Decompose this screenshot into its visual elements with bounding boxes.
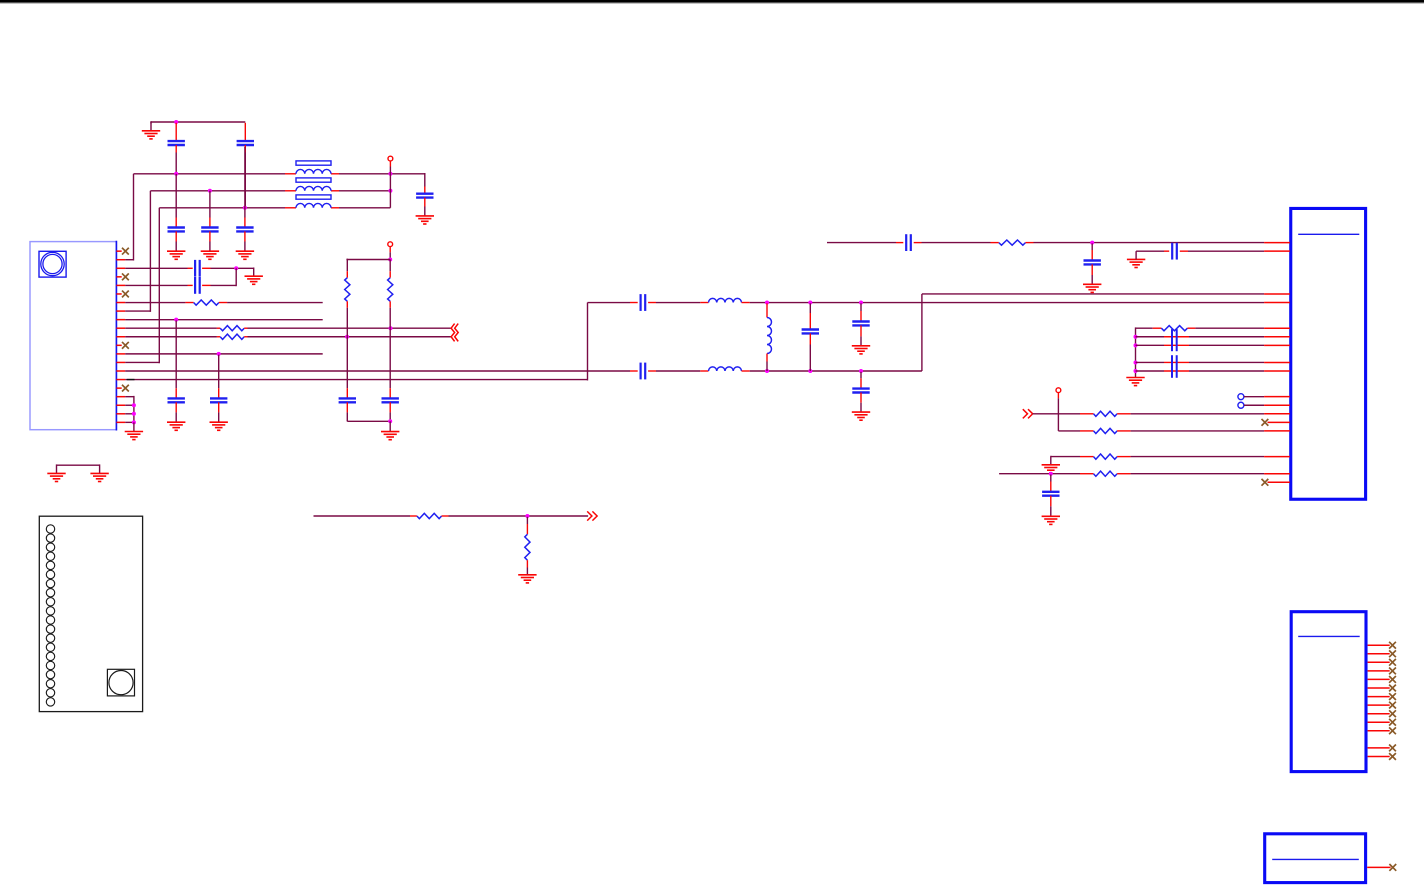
wire R7 to J1 xyxy=(1195,327,1264,329)
inductor T1 winding 1 xyxy=(296,169,331,173)
U1 pin 17 no-connect xyxy=(116,387,121,389)
wire pin7 xyxy=(125,302,185,304)
wire net M xyxy=(314,515,411,517)
offsheet chevron pins 10-11 xyxy=(451,324,455,342)
wire net K xyxy=(1050,455,1052,458)
ground C4v2 xyxy=(201,250,219,252)
J2 pin 8 no-connect xyxy=(1368,704,1390,706)
connector J3 label line xyxy=(1272,858,1359,860)
wire L1 right xyxy=(750,302,1264,304)
wire net B riser xyxy=(125,310,150,312)
J1 pin 17 no-connect xyxy=(1268,481,1290,483)
junction R3 net xyxy=(345,335,349,339)
ground net K xyxy=(1042,464,1060,466)
wire L2 right xyxy=(750,370,922,372)
J1 pin 7 xyxy=(1264,344,1290,346)
J1 pin 6 xyxy=(1264,336,1290,338)
junction pins bracket c xyxy=(132,420,136,424)
terminal P5 xyxy=(1056,388,1061,393)
inductor L3 xyxy=(766,303,768,317)
resistor R4 xyxy=(345,278,350,302)
J2 pin 12 no-connect xyxy=(1368,747,1390,749)
junction C6 C7 xyxy=(234,266,238,270)
J1 pin 1 xyxy=(1264,242,1290,244)
connector J3 body xyxy=(1265,834,1366,883)
J1 pin 13 no-connect xyxy=(1268,421,1290,423)
junction C15 top xyxy=(859,301,863,305)
ground C8 xyxy=(167,421,185,423)
ground C18 xyxy=(1083,283,1101,285)
capacitor C14 xyxy=(809,303,811,313)
inductor T1 winding 2 xyxy=(296,186,331,190)
terminal P2 xyxy=(388,242,393,247)
wire P1 stem xyxy=(389,161,391,167)
wire net D step up xyxy=(921,294,923,371)
J2 pin 5 no-connect xyxy=(1368,678,1390,680)
capacitor C13 xyxy=(630,370,638,372)
wire pin15 net D xyxy=(125,370,630,372)
resistor R10 xyxy=(1080,456,1094,458)
wire C19 to J1 xyxy=(1188,250,1264,252)
wire R12 to chevron xyxy=(449,515,589,517)
junction pins bracket a xyxy=(132,403,136,407)
junction pin9 cap xyxy=(174,318,178,322)
resistor R11 xyxy=(1080,473,1094,475)
resistor R5 top lead xyxy=(389,260,391,272)
wire P4 to J1 xyxy=(1244,404,1264,406)
junction net H4 xyxy=(1134,360,1138,364)
wire pin11 xyxy=(125,336,217,338)
resistor R5 bottom lead xyxy=(389,301,391,307)
wire net A right xyxy=(339,173,425,175)
wire net G xyxy=(1135,251,1137,259)
wire net E top xyxy=(588,302,631,304)
offsheet chevron net I xyxy=(1023,409,1028,418)
resistor R13 xyxy=(525,534,530,560)
wire net A xyxy=(134,173,286,175)
U1 pin 13 xyxy=(116,353,125,355)
capacitor C4v1 xyxy=(168,226,185,228)
wire net K gnd stem xyxy=(1050,457,1052,465)
U1 pin 7 xyxy=(116,302,125,304)
terminal P3 xyxy=(1238,394,1244,400)
ground C3 xyxy=(416,215,434,217)
ground net H xyxy=(1126,377,1144,379)
resistor R6 xyxy=(991,242,999,244)
capacitor C21 xyxy=(1171,355,1173,378)
J2 pin 9 no-connect xyxy=(1368,713,1390,715)
wire R6 to J1 xyxy=(1034,242,1265,244)
wire net H2 xyxy=(1136,336,1165,338)
J3 pin 1 no-connect xyxy=(1367,866,1390,868)
terminal P1 xyxy=(388,156,393,161)
wire net C riser xyxy=(125,361,159,363)
resistor R1 xyxy=(185,302,193,304)
U1 pin 8 xyxy=(116,310,125,312)
wire pin16 net E xyxy=(125,379,587,381)
wire C12 to L1 xyxy=(656,302,700,304)
J1 pin 14 xyxy=(1264,430,1290,432)
wire net J xyxy=(1058,430,1080,432)
ground C6 C7 xyxy=(245,275,263,277)
capacitor C4v1 stem xyxy=(175,174,177,218)
wire P5 stem xyxy=(1057,393,1059,399)
wire pin3 xyxy=(125,267,187,269)
wire pin5 xyxy=(125,284,187,286)
J2 pin 2 no-connect xyxy=(1368,653,1390,655)
J1 pin 8 xyxy=(1264,361,1290,363)
wire R3 right xyxy=(248,336,452,338)
wire junction to ground xyxy=(253,267,255,276)
junction R2 net xyxy=(389,326,393,330)
junction caps join xyxy=(388,419,392,423)
capacitor C22 xyxy=(1050,475,1052,482)
capacitor C18 xyxy=(1091,243,1093,250)
capacitor C4v2 xyxy=(201,226,218,228)
capacitor C20 xyxy=(1171,329,1173,351)
wire bracket to ground xyxy=(133,422,135,431)
wire C2 down to net C xyxy=(244,153,246,208)
title bar xyxy=(0,0,1424,3)
transformer T1 bar 1 xyxy=(296,161,331,165)
wire R2 right xyxy=(248,327,452,329)
capacitor C8 stem xyxy=(175,320,177,388)
inductor T1 winding 1 leads xyxy=(285,173,296,175)
resistor R12 xyxy=(410,515,417,517)
U1 pin 10 xyxy=(116,327,125,329)
junction P2 xyxy=(388,258,392,262)
wire C7 up xyxy=(211,284,237,286)
U1 pin 1 no-connect xyxy=(116,250,121,252)
J4 RF symbol xyxy=(107,669,134,696)
J1 pin 9 xyxy=(1264,370,1290,372)
wire R8 to J1 xyxy=(1131,413,1265,415)
capacitor C19 xyxy=(1164,250,1169,252)
junction net H2 xyxy=(1134,335,1138,339)
wire net A riser xyxy=(125,259,133,261)
capacitor C12 xyxy=(630,302,638,304)
wire C3 to ground xyxy=(424,207,426,216)
wire P2 stem xyxy=(389,247,391,253)
wire net H4 xyxy=(1136,361,1165,363)
wire net T top xyxy=(151,121,245,123)
terminal P4 xyxy=(1238,402,1244,408)
J1 pin 4 xyxy=(1264,302,1290,304)
resistor R7 xyxy=(1153,327,1162,329)
J2 pin 3 no-connect xyxy=(1368,661,1390,663)
J2 pin 10 no-connect xyxy=(1368,721,1390,723)
wire pin9 xyxy=(125,319,323,321)
U1 pin 6 no-connect xyxy=(116,293,121,295)
junction net H3 xyxy=(1134,343,1138,347)
capacitor C4v3 stem xyxy=(244,147,246,218)
offsheet chevron net M xyxy=(587,511,592,520)
capacitor C1 xyxy=(175,123,177,141)
U1 pin 3 xyxy=(116,267,125,269)
U1 pin 18 xyxy=(116,396,125,398)
capacitor C4v3 xyxy=(236,226,253,228)
resistor R8 xyxy=(1080,413,1094,415)
J1 pin 12 xyxy=(1264,413,1290,415)
junction L3 top xyxy=(765,301,769,305)
wire net H5 xyxy=(1136,370,1165,372)
J1 pin 2 xyxy=(1264,250,1290,252)
J1 pin 5 xyxy=(1264,327,1290,329)
ground bracket right xyxy=(90,472,108,474)
junction C16 top xyxy=(859,369,863,373)
resistor R13 top lead xyxy=(526,517,528,524)
J2 pin 13 no-connect xyxy=(1368,756,1390,758)
capacitor C17 xyxy=(896,242,903,244)
wire R5 to cap xyxy=(389,328,391,388)
capacitor C15 xyxy=(860,303,862,311)
wire join to ground xyxy=(389,421,391,431)
J1 pin 11 xyxy=(1264,404,1290,406)
inductor L1 xyxy=(700,302,708,304)
resistor R4 top lead xyxy=(346,259,348,272)
junction net B C4 xyxy=(208,189,212,193)
junction C14 bottom xyxy=(808,369,812,373)
transformer T1 bar 2 xyxy=(296,178,331,182)
wire C1 to net A xyxy=(175,153,177,174)
U1 pin 19 xyxy=(116,404,125,406)
junction C18 xyxy=(1090,241,1094,245)
J1 pin 15 xyxy=(1264,456,1290,458)
junction net M xyxy=(525,514,529,518)
J1 pin 10 xyxy=(1264,396,1290,398)
capacitor C8 xyxy=(168,397,185,399)
junction L3 bottom xyxy=(765,369,769,373)
junction net B term xyxy=(388,189,392,193)
wire net B right xyxy=(339,190,390,192)
wire R1 right xyxy=(227,302,323,304)
ground C9 xyxy=(210,421,228,423)
inductor T1 winding 2 leads xyxy=(285,190,296,192)
U1 pin 15 xyxy=(116,370,125,372)
J1 pin 16 xyxy=(1264,473,1290,475)
ground net G xyxy=(1127,258,1145,260)
wire R4 to cap xyxy=(346,337,348,388)
wire C17 to R6 xyxy=(922,242,991,244)
wire C6 to junction xyxy=(211,267,254,269)
junction net A term xyxy=(388,172,392,176)
ground C15 xyxy=(852,345,870,347)
U1 pin 21 xyxy=(116,421,125,423)
J2 pin 1 no-connect xyxy=(1368,644,1390,646)
ground C4v1 xyxy=(167,250,185,252)
resistor R5 xyxy=(388,278,393,302)
J2 pin 11 no-connect xyxy=(1368,730,1390,732)
U1 pin 2 xyxy=(116,259,125,261)
wire R11 to J1 xyxy=(1131,473,1265,475)
U1 pin 5 xyxy=(116,284,125,286)
junction pin13 cap xyxy=(217,352,221,356)
IC U1 body xyxy=(30,242,116,430)
wire R10 to J1 xyxy=(1131,456,1265,458)
U1 pin 14 xyxy=(116,361,125,363)
wire net I xyxy=(1033,413,1080,415)
U1 pin 9 xyxy=(116,319,125,321)
ground net T xyxy=(150,122,152,131)
J2 pin 6 no-connect xyxy=(1368,687,1390,689)
wire C13 to L2 xyxy=(656,370,700,372)
ground divider xyxy=(381,431,399,433)
ground C4v3 xyxy=(236,250,254,252)
junction net H5 xyxy=(1134,369,1138,373)
junction net T C1 xyxy=(174,120,178,124)
wire ground bracket xyxy=(57,464,100,466)
ground R13 xyxy=(518,574,536,576)
capacitor C9 stem xyxy=(218,355,220,389)
wire net A corner down xyxy=(424,173,426,187)
wire net D to J1 xyxy=(922,293,1264,295)
net E black mark xyxy=(127,379,135,381)
resistor R13 bottom lead xyxy=(526,560,528,567)
wire R9 to J1 xyxy=(1131,430,1265,432)
wire divider jumper xyxy=(346,259,390,261)
capacitor C7 xyxy=(188,284,193,286)
connector J1 body xyxy=(1291,208,1366,499)
connector J4 body xyxy=(39,516,142,711)
inductor T1 winding 3 xyxy=(296,203,331,207)
ground C16 xyxy=(852,411,870,413)
U1 pin 20 xyxy=(116,413,125,415)
J2 pin 4 no-connect xyxy=(1368,670,1390,672)
wire net C right xyxy=(339,207,390,209)
capacitor C16 xyxy=(860,372,862,379)
J2 pin 7 no-connect xyxy=(1368,696,1390,698)
wire net H3 xyxy=(1136,344,1165,346)
connector J1 label line xyxy=(1298,233,1359,235)
J4 pin circles xyxy=(46,525,54,533)
connector J2 label line xyxy=(1298,635,1360,637)
wire pin13 xyxy=(125,353,323,355)
resistor R2 xyxy=(217,327,220,329)
U1 pin 11 xyxy=(116,336,125,338)
resistor R9 xyxy=(1080,430,1094,432)
capacitor C9 xyxy=(210,397,227,399)
wire net B xyxy=(150,190,285,192)
wire net H1 xyxy=(1136,327,1153,329)
capacitor C3 xyxy=(424,187,426,194)
junction pins bracket b xyxy=(132,412,136,416)
connector J2 body xyxy=(1291,612,1366,772)
junction net A C1 xyxy=(174,172,178,176)
ground bracket left xyxy=(47,472,65,474)
IC U1 RF symbol xyxy=(39,251,66,277)
transformer T1 bar 3 xyxy=(296,195,331,199)
J1 pin 3 xyxy=(1264,293,1290,295)
U1 pin 12 no-connect xyxy=(116,344,121,346)
resistor R4 bottom lead xyxy=(346,301,348,307)
junction C14 top xyxy=(808,301,812,305)
capacitor C10 xyxy=(346,388,348,398)
junction net C C5 xyxy=(243,206,247,210)
ground C22 xyxy=(1042,515,1060,517)
wire pin18 bracket xyxy=(125,396,134,398)
inductor T1 winding 3 leads xyxy=(285,207,296,209)
wire net C xyxy=(159,207,285,209)
U1 pin 16 xyxy=(116,379,125,381)
wire P3 to J1 xyxy=(1244,396,1264,398)
junction net L xyxy=(1049,472,1053,476)
capacitor C4v2 stem xyxy=(209,191,211,218)
inductor L2 xyxy=(700,370,708,372)
capacitor C2 xyxy=(244,123,246,141)
U1 pin 4 no-connect xyxy=(116,276,121,278)
ground IC pins xyxy=(125,431,143,433)
resistor R3 xyxy=(217,336,220,338)
wire net F xyxy=(827,242,896,244)
wire caps join xyxy=(346,420,348,423)
capacitor C6 xyxy=(188,267,193,269)
wire net L left xyxy=(999,473,1080,475)
wire pin10 xyxy=(125,327,217,329)
capacitor C11 xyxy=(389,388,391,398)
